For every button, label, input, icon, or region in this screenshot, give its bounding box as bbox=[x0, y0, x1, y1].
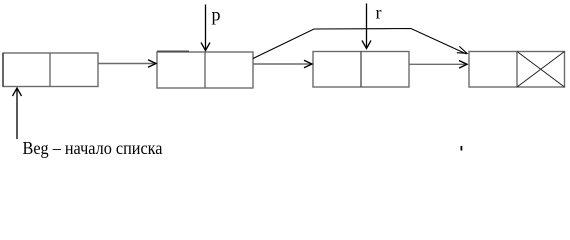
svg-text:p: p bbox=[212, 5, 221, 25]
svg-text:Beg – начало списка: Beg – начало списка bbox=[23, 138, 163, 158]
svg-text:r: r bbox=[376, 3, 382, 23]
